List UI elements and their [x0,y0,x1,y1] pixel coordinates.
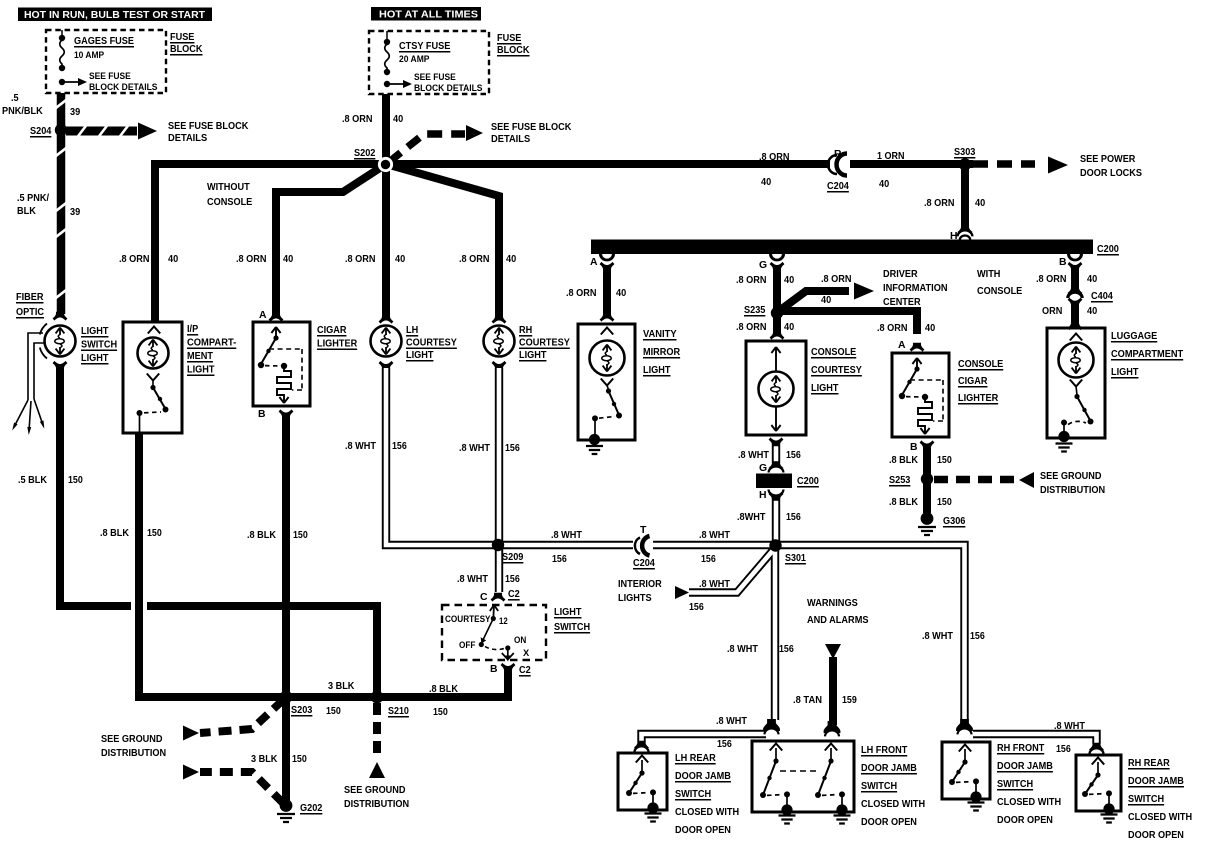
fuse GAGES FUSE 10 AMP [61,30,63,37]
connector cup at LH front door jamb (tan wire) [824,721,841,733]
svg-text:.8 ORN: .8 ORN [736,275,767,286]
svg-text:3 BLK: 3 BLK [251,754,278,765]
svg-text:DISTRIBUTION: DISTRIBUTION [1040,485,1105,496]
vanity mirror light enclosure [600,313,615,322]
lamp VANITY MIRROR LIGHT with door switch [601,328,613,335]
svg-text:BLOCK DETAILS: BLOCK DETAILS [89,82,158,93]
connector C200 (console) black body [756,474,792,489]
svg-text:150: 150 [68,475,83,486]
svg-text:LIGHTER: LIGHTER [317,339,358,350]
arrow see fuse block details (inside center fuse box) [387,83,404,85]
svg-text:40: 40 [283,254,293,265]
wire RH front to RH rear door jamb (.8 WHT) [973,734,1097,744]
console cigar lighter output bell [920,440,935,449]
svg-text:RH REAR: RH REAR [1128,758,1170,769]
svg-text:.5: .5 [11,93,19,104]
wire C200 H to S301 (.8 WHT) [772,497,780,545]
wire dashed S202 up-right to see-fuse-block arrow [389,134,465,162]
wire C404 down to luggage compartment light [1071,303,1079,326]
wire S303 down to C200 terminal H [961,168,969,231]
wire light switch light ground continues to S210 [147,606,377,693]
svg-text:.8 BLK: .8 BLK [247,530,276,541]
connector C200 terminal G [769,254,785,261]
svg-text:FUSE: FUSE [170,32,194,43]
svg-text:.8 ORN: .8 ORN [736,322,767,333]
fuse block (left) dashed enclosure [46,30,166,93]
svg-text:156: 156 [717,739,732,750]
svg-text:LH: LH [406,325,418,336]
RH front door jamb switch enclosure [942,742,990,799]
svg-text:COURTESY: COURTESY [445,614,491,624]
svg-text:C204: C204 [633,558,655,569]
svg-text:DOOR OPEN: DOOR OPEN [997,815,1053,826]
svg-text:.8 ORN: .8 ORN [877,323,908,334]
wire I/P light ground (.8 BLK) down to S203 [139,433,283,697]
svg-text:156: 156 [970,631,985,642]
svg-text:.8 ORN: .8 ORN [459,254,490,265]
arrowhead see fuse block details (S204) [138,123,157,140]
svg-text:A: A [590,257,598,268]
svg-text:CIGAR: CIGAR [958,376,988,387]
svg-text:ON: ON [514,635,527,645]
svg-text:INFORMATION: INFORMATION [883,283,948,294]
wire S235 arrow to driver information center [779,291,849,311]
wire C204 T to S301 (.8 WHT) [652,541,775,549]
svg-text:S301: S301 [785,553,806,564]
arrowhead driver information center [854,283,874,300]
svg-text:S253: S253 [889,475,911,486]
svg-text:LIGHT: LIGHT [811,383,839,394]
arrowhead interior lights [675,586,689,599]
svg-text:40: 40 [761,177,771,188]
svg-text:40: 40 [168,254,178,265]
wire S202 diagonal to cigar lighter (without console) [276,164,386,316]
svg-text:WARNINGS: WARNINGS [807,598,858,609]
svg-text:.8 WHT: .8 WHT [738,450,770,461]
wire console cigar B down to S253 (.8 BLK) [923,448,931,476]
wire RH courtesy down through S209 to light switch C [495,368,503,592]
svg-text:CLOSED WITH: CLOSED WITH [861,799,925,810]
console cigar lighter enclosure [910,343,925,352]
svg-text:C200: C200 [797,476,819,487]
svg-text:LIGHT: LIGHT [81,353,109,364]
svg-text:B: B [910,442,918,453]
svg-text:156: 156 [552,554,567,565]
svg-text:39: 39 [70,107,80,118]
svg-text:.8 ORN: .8 ORN [759,152,790,163]
connector C2 terminal B cup [501,663,516,672]
svg-text:DISTRIBUTION: DISTRIBUTION [344,799,409,810]
wire console courtesy to C200 G (.8 WHT) [772,444,780,463]
console courtesy output bell [769,437,784,446]
connector C200 terminal B [1067,254,1083,261]
connector C200 harness bar [591,240,1093,255]
wire dashed S253 to see ground distribution [934,476,1018,484]
svg-text:DOOR LOCKS: DOOR LOCKS [1080,168,1142,179]
wire .5 PNK/BLK fuse to light switch light [57,93,66,314]
svg-text:LIGHT: LIGHT [643,365,671,376]
svg-text:SEE GROUND: SEE GROUND [344,785,406,796]
svg-text:S303: S303 [954,147,976,158]
connector cup at LH front door jamb (white wire) [763,719,780,731]
svg-text:150: 150 [937,497,952,508]
wire light switch light ground to S210 (upper left part) [60,368,131,606]
svg-text:LH REAR: LH REAR [675,753,716,764]
svg-text:.8 ORN: .8 ORN [924,198,955,209]
svg-text:DISTRIBUTION: DISTRIBUTION [101,748,166,759]
ground (vanity mirror light case) [589,434,600,445]
svg-text:156: 156 [786,450,801,461]
svg-text:.8 WHT: .8 WHT [551,530,583,541]
svg-text:C404: C404 [1091,291,1113,302]
svg-text:LH FRONT: LH FRONT [861,745,908,756]
heater/switch CIGAR LIGHTER [271,327,280,337]
svg-text:ORN: ORN [1042,306,1062,317]
lamp CONSOLE COURTESY LIGHT [771,347,780,372]
switch LH REAR DOOR JAMB [636,756,648,763]
svg-text:40: 40 [506,254,516,265]
svg-text:LUGGAGE: LUGGAGE [1111,331,1157,342]
svg-text:B: B [1059,257,1067,268]
svg-text:.8 BLK: .8 BLK [100,528,129,539]
svg-text:SWITCH: SWITCH [1128,794,1164,805]
svg-text:COURTESY: COURTESY [519,338,570,349]
switch LIGHT SWITCH internals [490,605,498,617]
arrowhead see ground distribution (S203 lower) [183,765,199,780]
svg-text:.8 TAN: .8 TAN [793,695,822,706]
svg-text:SWITCH: SWITCH [861,781,897,792]
splice S203 [280,691,293,704]
svg-text:LIGHTS: LIGHTS [618,593,652,604]
svg-text:40: 40 [784,322,794,333]
svg-text:SWITCH: SWITCH [81,340,117,351]
svg-text:.8 ORN: .8 ORN [342,114,373,125]
cigar lighter enclosure [269,313,284,322]
svg-text:CONSOLE: CONSOLE [811,347,856,358]
connector C404 [1068,286,1083,295]
svg-text:SWITCH: SWITCH [554,622,590,633]
I/P compartment light enclosure [123,322,182,433]
svg-text:156: 156 [701,554,716,565]
svg-text:G306: G306 [943,516,966,527]
wire S301 down to LH front door jamb switch [771,545,779,720]
svg-text:156: 156 [392,441,407,452]
arrowhead down-triangle from warnings and alarms [825,644,841,659]
wire S202 down to LH courtesy light [382,164,390,318]
svg-text:DOOR OPEN: DOOR OPEN [1128,830,1184,841]
svg-text:156: 156 [779,644,794,655]
svg-text:DOOR OPEN: DOOR OPEN [861,817,917,828]
arrowhead see power door locks [1048,157,1068,174]
svg-text:DOOR JAMB: DOOR JAMB [997,761,1053,772]
switch LH FRONT DOOR JAMB (right half) [825,744,837,751]
svg-text:G: G [759,463,767,474]
svg-text:SEE FUSE: SEE FUSE [89,71,131,82]
svg-text:12: 12 [499,616,508,626]
svg-text:SEE FUSE BLOCK: SEE FUSE BLOCK [491,122,572,133]
arrowhead see ground distribution (S203 upper) [183,726,199,741]
wire LH courtesy to S209 (.8 WHT) [386,368,498,545]
svg-text:CONSOLE: CONSOLE [958,359,1003,370]
svg-text:PNK/BLK: PNK/BLK [2,106,43,117]
svg-text:156: 156 [1056,744,1071,755]
svg-text:40: 40 [975,198,985,209]
wire S202 diagonal down to RH courtesy light [386,164,499,318]
svg-text:FIBER: FIBER [16,292,44,303]
svg-text:RH: RH [519,325,532,336]
ground G202 [280,799,293,812]
svg-text:CENTER: CENTER [883,297,921,308]
connector C200 terminal A [599,254,615,261]
svg-text:10 AMP: 10 AMP [74,50,105,61]
svg-text:40: 40 [784,275,794,286]
svg-text:OPTIC: OPTIC [16,307,44,318]
fuse CTSY FUSE 20 AMP [386,31,388,41]
svg-text:20 AMP: 20 AMP [399,54,430,65]
svg-text:40: 40 [925,323,935,334]
arrowhead see ground distribution (S253) [1019,472,1034,488]
svg-text:SWITCH: SWITCH [675,789,711,800]
ground (luggage compartment light case) [1058,431,1069,442]
banner HOT IN RUN, BULB TEST OR START [18,8,212,22]
splice S202 hub [378,157,393,172]
svg-text:HOT AT ALL TIMES: HOT AT ALL TIMES [379,10,478,21]
svg-text:156: 156 [689,602,704,613]
wire G down to S235 [773,268,781,312]
wire S202 to C204 connector R [386,160,831,168]
svg-text:CLOSED WITH: CLOSED WITH [675,807,739,818]
arrowhead see fuse block details (S202) [466,125,483,141]
svg-text:COURTESY: COURTESY [811,365,862,376]
svg-text:156: 156 [505,443,520,454]
svg-text:.8 ORN: .8 ORN [119,254,150,265]
svg-text:S202: S202 [354,148,376,159]
light switch dashed enclosure [442,605,546,660]
connector C200 (console) terminal G bell [769,461,784,470]
splice S301 [769,539,781,551]
svg-text:SEE FUSE: SEE FUSE [414,72,456,83]
svg-text:40: 40 [1087,274,1097,285]
lamp LIGHT SWITCH LIGHT [53,312,68,321]
luggage compartment light enclosure [1068,321,1083,330]
wire S203 to S210 (3 BLK) [283,693,377,701]
svg-text:.8 WHT: .8 WHT [459,443,491,454]
wire S209 to C204 T (.8 WHT) [498,541,634,549]
svg-text:150: 150 [147,528,162,539]
wire C204 to S303 (1 ORN) [850,160,973,168]
svg-text:S235: S235 [744,305,766,316]
svg-text:.5 PNK/: .5 PNK/ [17,193,49,204]
connector C200 (console) terminal H bell [769,490,784,496]
svg-text:.8 BLK: .8 BLK [889,455,918,466]
arrowhead up-triangle see ground distribution (S210) [369,762,385,778]
svg-text:.5 BLK: .5 BLK [18,475,47,486]
switch RH FRONT DOOR JAMB [959,745,971,752]
wire dashed S210 down to ground distribution [373,703,381,758]
gang dashed link between LH front jamb switches [780,770,818,772]
svg-text:OFF: OFF [459,640,476,650]
svg-text:RH FRONT: RH FRONT [997,743,1045,754]
svg-text:DOOR JAMB: DOOR JAMB [1128,776,1184,787]
svg-text:1 ORN: 1 ORN [877,151,905,162]
svg-text:A: A [259,310,267,321]
lamp RH COURTESY LIGHT [492,315,507,324]
svg-text:.8 ORN: .8 ORN [345,254,376,265]
svg-text:150: 150 [937,455,952,466]
svg-text:150: 150 [292,754,307,765]
svg-text:CIGAR: CIGAR [317,325,347,336]
svg-text:40: 40 [616,288,626,299]
svg-text:CONSOLE: CONSOLE [207,197,252,208]
svg-text:LIGHT: LIGHT [1111,367,1139,378]
wire S210 to light switch B (.8 BLK) [377,670,508,697]
svg-text:DOOR OPEN: DOOR OPEN [675,825,731,836]
wire S203 down to G202 (3 BLK) [282,701,290,801]
svg-text:HOT IN RUN, BULB TEST OR START: HOT IN RUN, BULB TEST OR START [24,10,206,21]
wire dashed S203 to see ground distribution (upper) [200,700,283,733]
wire A to vanity mirror light [603,268,611,316]
svg-text:159: 159 [842,695,857,706]
splice S235 [771,307,783,319]
svg-text:B: B [258,409,266,420]
svg-text:DOOR JAMB: DOOR JAMB [675,771,731,782]
svg-text:39: 39 [70,207,80,218]
connector C204 terminal T (arcs) [633,537,653,553]
arrow see fuse block details (inside left fuse box) [62,81,79,83]
connector C204 terminal R (arcs) [830,157,850,172]
svg-text:SEE GROUND: SEE GROUND [101,734,163,745]
svg-text:156: 156 [786,512,801,523]
svg-text:LIGHT: LIGHT [406,350,434,361]
svg-text:.8WHT: .8WHT [737,512,766,523]
wire .8 TAN warnings to LH front door jamb [829,657,837,725]
svg-text:SEE GROUND: SEE GROUND [1040,471,1102,482]
lamp LUGGAGE COMPARTMENT LIGHT with switch [1070,334,1082,341]
ground G306 [921,512,934,525]
svg-text:S203: S203 [291,705,313,716]
svg-text:WITHOUT: WITHOUT [207,182,250,193]
svg-text:.8 ORN: .8 ORN [236,254,267,265]
splice S210 [371,691,384,704]
svg-text:DETAILS: DETAILS [168,133,207,144]
svg-text:DRIVER: DRIVER [883,269,918,280]
svg-text:.8 WHT: .8 WHT [699,579,731,590]
svg-text:.8 WHT: .8 WHT [922,631,954,642]
wire CTSY fuse down to S202 [382,94,390,164]
lamp LH COURTESY LIGHT [379,315,394,324]
svg-text:40: 40 [395,254,405,265]
svg-text:LIGHT: LIGHT [519,350,547,361]
svg-text:CLOSED WITH: CLOSED WITH [1128,812,1192,823]
wire S235 right to console cigar lighter [777,311,917,334]
svg-text:150: 150 [433,707,448,718]
lamp I/P COMPARTMENT LIGHT with switch [148,327,160,334]
svg-text:I/P: I/P [187,324,198,335]
svg-text:WITH: WITH [977,269,1000,280]
svg-text:CLOSED WITH: CLOSED WITH [997,797,1061,808]
svg-text:.8 WHT: .8 WHT [716,716,748,727]
svg-text:BLK: BLK [17,206,36,217]
wire cigar lighter B down to S203 (.8 BLK) [282,417,290,697]
svg-text:COMPART-: COMPART- [187,338,237,349]
svg-text:.8 WHT: .8 WHT [457,574,489,585]
svg-text:T: T [640,525,647,536]
svg-text:C204: C204 [827,181,849,192]
svg-text:BLOCK: BLOCK [497,45,530,56]
wire dashed S303 to power door locks [973,160,1035,168]
cigar lighter output bell [279,409,294,418]
LH front door jamb switch enclosure [752,741,854,812]
svg-text:BLOCK: BLOCK [170,44,203,55]
wire LH front to LH rear door jamb (.8 WHT) [642,734,767,743]
wire S301 to interior lights arrow [689,548,775,593]
svg-text:156: 156 [505,574,520,585]
svg-text:LIGHT: LIGHT [187,365,215,376]
connector cup at RH rear door jamb [1089,743,1104,752]
connector C2 terminal C cup [491,593,506,602]
svg-text:40: 40 [821,295,831,306]
wire S202 left then down to I/P compartment light [155,164,386,322]
svg-text:SWITCH: SWITCH [997,779,1033,790]
svg-text:BLOCK DETAILS: BLOCK DETAILS [414,83,483,94]
wire hatched to see-fuse-block arrow at S204 [66,127,137,136]
svg-text:C2: C2 [508,589,520,600]
svg-text:R: R [834,149,842,160]
connector C200 terminal H [958,225,973,234]
svg-text:.8 ORN: .8 ORN [566,288,597,299]
svg-text:.8 ORN: .8 ORN [821,274,852,285]
svg-text:C2: C2 [519,665,531,676]
svg-text:.8 WHT: .8 WHT [727,644,759,655]
svg-text:150: 150 [326,706,341,717]
svg-text:LIGHT: LIGHT [554,607,582,618]
banner HOT AT ALL TIMES [371,7,481,21]
svg-text:VANITY: VANITY [643,329,677,340]
svg-text:.8 BLK: .8 BLK [429,684,458,695]
wire S253 to G306 [923,483,931,513]
svg-text:3 BLK: 3 BLK [328,681,355,692]
svg-text:40: 40 [879,179,889,190]
fiber optic light pipes with 3 arrows [40,324,47,335]
splice S209 [492,539,504,551]
heater/switch CONSOLE CIGAR LIGHTER [912,358,921,368]
svg-text:H: H [759,490,767,501]
wire dashed G202 to see ground distribution (lower) [200,772,283,803]
svg-text:40: 40 [1087,306,1097,317]
svg-text:40: 40 [393,114,403,125]
svg-text:C: C [480,592,488,603]
svg-text:AND ALARMS: AND ALARMS [807,615,869,626]
svg-text:LIGHTER: LIGHTER [958,393,999,404]
svg-text:B: B [490,664,498,675]
svg-text:.8 WHT: .8 WHT [345,441,377,452]
svg-text:C200: C200 [1097,244,1119,255]
connector cup at RH front door jamb [956,719,973,731]
svg-text:S210: S210 [388,706,409,717]
svg-text:DOOR JAMB: DOOR JAMB [861,763,917,774]
svg-text:CTSY FUSE: CTSY FUSE [399,41,450,52]
RH rear door jamb switch enclosure [1076,755,1121,811]
svg-text:GAGES FUSE: GAGES FUSE [74,36,134,47]
svg-text:.8 ORN: .8 ORN [1036,274,1067,285]
svg-text:S209: S209 [502,552,524,563]
white-wire inner clearing overlays [386,368,498,545]
svg-text:X: X [523,648,530,658]
svg-text:SEE POWER: SEE POWER [1080,154,1136,165]
svg-text:.8 WHT: .8 WHT [1054,721,1086,732]
svg-text:SEE FUSE BLOCK: SEE FUSE BLOCK [168,121,249,132]
svg-text:.8 BLK: .8 BLK [889,497,918,508]
